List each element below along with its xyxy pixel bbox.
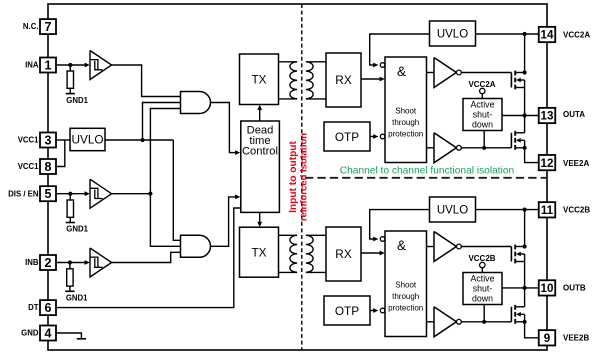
transformer B secondary winding (306, 234, 326, 236)
pin 11 VCC2B (539, 202, 556, 217)
wire VCC2B down to M3 drain (524, 210, 526, 247)
svg-text:VCC1: VCC1 (18, 162, 39, 171)
block UVLO channel A (430, 21, 476, 46)
block shoot-through protection A (385, 57, 427, 163)
arrow INA into buffer (85, 63, 90, 68)
wire OTP A to shoot-through (inverted input) (370, 136, 374, 138)
resistor DIS/EN pull-down (67, 200, 73, 217)
resistor INA pull-down (67, 71, 73, 88)
wire STP A to high-side driver (427, 72, 435, 74)
svg-text:down: down (472, 119, 493, 129)
pin 13 OUTA (539, 108, 556, 123)
svg-text:through: through (392, 118, 419, 127)
wire M4 drain to OUTB node (524, 288, 526, 307)
svg-text:VCC2B: VCC2B (563, 206, 590, 215)
wire INA pin to buffer (56, 64, 85, 66)
wire M2 drain to OUTA node (524, 116, 526, 133)
resistor INB pull-down (67, 269, 73, 286)
block RX channel B (326, 227, 361, 281)
transformer A secondary winding (306, 61, 326, 63)
svg-text:TX: TX (251, 73, 266, 87)
wire driver to M2 gate (461, 147, 511, 149)
ground GND1 (INA) (66, 93, 75, 95)
wire AND A output to dead time control (211, 103, 236, 153)
wire RX B output to shoot-through (361, 252, 380, 254)
block Dead time Control (241, 121, 280, 212)
wire pin 3 VCC1 to UVLO (56, 139, 70, 141)
svg-text:DT: DT (28, 303, 39, 312)
ground GND1 (INB) (65, 290, 74, 292)
pin 14 VCC2A (539, 27, 556, 42)
svg-text:down: down (472, 293, 493, 303)
wire AND B output to dead time control (211, 197, 236, 246)
inverting driver B low-side (434, 307, 456, 337)
wire resistor to GND1 (INB) (69, 286, 71, 291)
node INA junction (68, 63, 72, 67)
svg-text:Active: Active (471, 273, 495, 283)
schmitt buffer INA (90, 51, 112, 80)
wire OUTA rail (502, 115, 539, 117)
wire junction to resistor (INB) (69, 263, 71, 269)
pin 7 N.C. (40, 19, 56, 34)
svg-text:Input to output: Input to output (288, 140, 299, 212)
pin 12 VEE2A (539, 155, 556, 170)
transformer B primary winding (279, 234, 298, 236)
wire DT pin to dead time control (56, 208, 241, 308)
block UVLO channel B (430, 197, 476, 222)
wire UVLO A to shoot-through (inverted input) (370, 34, 430, 65)
pin 9 VEE2B (539, 330, 556, 345)
wire ASD A to OUTA (501, 115, 503, 117)
wire STP B to low-side driver (427, 321, 435, 323)
block Active shut-down A (463, 99, 502, 131)
block OTP channel B (324, 296, 370, 325)
block shoot-through protection B (385, 231, 427, 337)
block TX channel B (240, 227, 279, 277)
svg-text:9: 9 (544, 332, 551, 345)
svg-text:protection: protection (388, 130, 423, 139)
svg-text:OTP: OTP (335, 130, 359, 144)
channel-to-channel functional isolation dashed line (305, 177, 547, 179)
node DIS/EN junction at pin (68, 192, 72, 196)
svg-text:protection: protection (388, 304, 423, 313)
svg-text:UVLO: UVLO (437, 205, 468, 217)
svg-text:8: 8 (45, 160, 52, 174)
svg-text:through: through (392, 292, 419, 301)
pin 6 DT (40, 300, 56, 315)
svg-text:11: 11 (541, 204, 554, 217)
wire driver to M3 gate (461, 246, 511, 248)
arrow INB into buffer (85, 260, 90, 265)
block RX channel A (326, 53, 361, 107)
svg-text:Shoot: Shoot (395, 107, 417, 116)
label: Input to output reinforced isolation (red, rotated) (288, 133, 310, 221)
wire INB buffer output to AND gate B input 3 (112, 252, 181, 262)
wire DIS/EN junction up to AND gate A input 3 (150, 109, 180, 194)
svg-text:RX: RX (335, 73, 352, 87)
wire DIS/EN pin to buffer (56, 193, 85, 195)
pin 4 GND (40, 326, 56, 341)
node OUTA junction (523, 113, 527, 117)
wire UVLO junction up to AND gate A input 2 (143, 103, 181, 141)
wire ASD A to low-side gate (483, 131, 485, 148)
wire driver to M4 gate (461, 321, 511, 323)
svg-text:VCC2A: VCC2A (468, 80, 495, 89)
wire INB pin to buffer (56, 262, 85, 264)
svg-text:Shoot: Shoot (395, 281, 417, 290)
wire M4 source to VEE2B pin (525, 322, 539, 338)
svg-text:VCC2A: VCC2A (563, 30, 590, 39)
AND gate channel B (181, 235, 211, 257)
node VCC2A junction (523, 32, 527, 36)
svg-text:GND1: GND1 (66, 224, 88, 233)
wire INA buffer output to AND gate A input 1 (112, 65, 181, 97)
svg-text:3: 3 (45, 134, 52, 148)
block OTP channel A (324, 122, 370, 151)
transistor M4 (low-side B) (510, 307, 512, 322)
wire DIS/EN buffer output to junction (112, 193, 151, 195)
transformer A primary winding (279, 61, 298, 63)
svg-text:INA: INA (25, 61, 39, 70)
schmitt buffer INB (90, 248, 112, 277)
wire GND pin to ground (56, 333, 81, 339)
transistor M2 (low-side A) (510, 133, 512, 148)
node UVLO output junction (140, 138, 144, 142)
arrow DIS/EN into buffer (85, 191, 90, 196)
svg-text:6: 6 (45, 301, 52, 315)
wire resistor to GND1 (DIS/EN) (69, 217, 71, 222)
svg-text:&: & (397, 64, 406, 79)
svg-text:14: 14 (541, 29, 554, 42)
svg-text:VCC2B: VCC2B (468, 254, 495, 263)
svg-text:INB: INB (25, 258, 39, 267)
wire+arrow DTC to TX A (259, 109, 261, 121)
input-to-output reinforced isolation dashed line (301, 4, 303, 350)
inverting driver A low-side (434, 133, 456, 163)
transistor M1 (high-side A) (510, 73, 512, 88)
wire driver to M1 gate (461, 72, 511, 74)
wire INA junction to resistor (69, 65, 71, 71)
node M4 source junction (523, 320, 527, 324)
wire ASD B to low-side gate (483, 305, 485, 322)
svg-text:&: & (397, 238, 406, 253)
pin 3 VCC1 (40, 133, 56, 148)
svg-text:OTP: OTP (335, 304, 359, 318)
AND gate channel A (181, 92, 211, 114)
wire OTP B to shoot-through (inverted input) (370, 310, 374, 312)
svg-text:12: 12 (541, 157, 554, 170)
svg-text:Channel to channel functional: Channel to channel functional isolation (340, 166, 514, 177)
schmitt buffer DIS/EN (90, 179, 112, 208)
block TX channel A (240, 54, 279, 105)
wire UVLO net down to AND gate B input 1 (173, 140, 180, 240)
svg-text:GND1: GND1 (66, 294, 88, 303)
svg-text:2: 2 (45, 256, 52, 270)
svg-text:RX: RX (335, 247, 352, 261)
node DIS/EN output junction (148, 192, 152, 196)
svg-text:Control: Control (242, 146, 278, 158)
wire VCC2A down to M1 drain (524, 34, 526, 73)
svg-text:GND1: GND1 (66, 96, 88, 105)
svg-text:Active: Active (471, 99, 495, 109)
node M2 source junction (523, 146, 527, 150)
svg-text:reinforced isolation: reinforced isolation (299, 133, 310, 221)
wire M2 source to VEE2A pin (525, 148, 539, 163)
svg-text:VEE2A: VEE2A (563, 159, 589, 168)
wire M3 source to OUTB node (524, 262, 526, 288)
node INB junction (68, 260, 72, 264)
inverting driver A high-side (434, 58, 456, 88)
wire UVLO output right (105, 139, 173, 141)
node OUTB junction (523, 286, 527, 290)
wire VCC2B rail (476, 209, 539, 211)
svg-text:OUTA: OUTA (563, 110, 585, 119)
svg-text:OUTB: OUTB (563, 284, 586, 293)
pin 1 INA (40, 58, 56, 73)
ground symbol (GND pin) (77, 338, 86, 340)
wire OUTB rail (502, 287, 539, 289)
ground GND1 (DIS/EN) (66, 222, 75, 224)
wire resistor to GND1 (69, 88, 71, 93)
block Active shut-down B (463, 273, 502, 305)
svg-text:7: 7 (45, 20, 52, 34)
op block UVLO (input side) (70, 128, 105, 150)
wire DIS/EN junction down to AND gate B input 2 (150, 194, 180, 247)
svg-text:shut-: shut- (473, 283, 493, 293)
svg-text:GND: GND (21, 329, 39, 338)
wire+arrow DTC to TX B (259, 212, 261, 223)
wire STP B to high-side driver (427, 246, 435, 248)
svg-text:1: 1 (45, 59, 52, 73)
pin 10 OUTB (539, 280, 556, 295)
svg-text:VCC1: VCC1 (18, 136, 39, 145)
svg-text:VEE2B: VEE2B (563, 334, 589, 343)
transistor M3 (high-side B) (510, 247, 512, 262)
wire pin 8 VCC1 up to VCC1 net (56, 140, 65, 167)
svg-text:4: 4 (45, 327, 52, 341)
wire STP A to low-side driver (427, 147, 435, 149)
svg-text:10: 10 (541, 282, 554, 295)
svg-text:DIS / EN: DIS / EN (8, 189, 39, 198)
pin 2 INB (40, 255, 56, 270)
inverting driver B high-side (434, 232, 456, 262)
svg-text:TX: TX (251, 246, 266, 260)
pin 5 DIS/EN (40, 186, 56, 201)
svg-text:UVLO: UVLO (71, 133, 103, 147)
wire RX A output to shoot-through (361, 78, 380, 80)
node VCC2B junction (523, 208, 527, 212)
wire VCC2A rail (476, 33, 539, 35)
wire UVLO B to shoot-through (inverted input) (370, 210, 430, 239)
svg-text:shut-: shut- (473, 109, 493, 119)
svg-text:13: 13 (541, 110, 554, 123)
svg-text:N.C.: N.C. (23, 22, 39, 31)
wire M1 source to OUTA node (524, 88, 526, 116)
wire junction to resistor (DIS/EN) (69, 194, 71, 200)
svg-text:5: 5 (45, 187, 52, 201)
pin 8 VCC1 (40, 159, 56, 174)
svg-text:UVLO: UVLO (437, 29, 468, 41)
